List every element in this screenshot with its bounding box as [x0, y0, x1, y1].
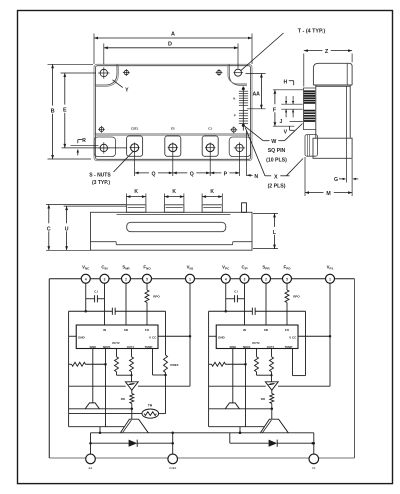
dim G — [346, 159, 348, 183]
wire B — [69, 413, 142, 415]
dim E — [61, 72, 97, 74]
svg-text:M: M — [326, 191, 330, 197]
wire E2 column — [90, 433, 92, 454]
side view case lid — [313, 63, 352, 85]
comparator triangle — [125, 382, 138, 390]
wire VCC — [298, 335, 330, 337]
collector drop — [271, 409, 273, 419]
wire TEMP — [152, 349, 154, 376]
wire CIN column — [104, 283, 106, 325]
svg-text:C.I: C.I — [94, 289, 98, 293]
diode — [230, 442, 269, 444]
wire CIN column — [244, 283, 246, 325]
wire out join — [257, 374, 272, 376]
svg-text:V CC: V CC — [149, 335, 157, 339]
capacitor C.I — [226, 298, 235, 300]
wire SINK column — [92, 349, 94, 404]
svg-text:CIN: CIN — [101, 265, 108, 271]
svg-text:C.I: C.I — [234, 289, 238, 293]
wire VNC column — [225, 283, 227, 311]
resistor OUT2 — [256, 349, 258, 357]
thermistor TH — [142, 409, 159, 418]
svg-text:P: P — [224, 171, 228, 177]
dim F — [274, 90, 276, 126]
front view baseplate lines — [91, 241, 117, 243]
comparator triangle — [265, 382, 278, 390]
dim U — [64, 205, 127, 207]
svg-text:3: 3 — [244, 278, 246, 282]
output transistor — [260, 419, 288, 433]
svg-text:C1: C1 — [312, 466, 316, 470]
svg-text:S - NUTS: S - NUTS — [89, 173, 111, 179]
svg-text:SENS: SENS — [243, 345, 251, 349]
terminal VP1 — [326, 274, 335, 283]
svg-text:D: D — [168, 41, 172, 47]
svg-text:AA: AA — [252, 92, 260, 98]
dim A — [93, 34, 95, 65]
svg-text:SQ PIN: SQ PIN — [268, 148, 286, 154]
terminal C1 — [309, 454, 319, 464]
svg-text:VP1: VP1 — [327, 265, 334, 271]
side view guide block — [305, 135, 318, 157]
schematic boundary box — [49, 278, 354, 280]
side view baseplate — [313, 138, 352, 158]
svg-text:V: V — [284, 130, 288, 136]
svg-text:C: C — [47, 226, 51, 232]
wire emitter rail — [91, 432, 314, 434]
svg-text:W: W — [271, 139, 277, 145]
mounting hole bottom-left — [100, 144, 107, 151]
corner flange curves — [95, 64, 117, 85]
svg-text:TEMP: TEMP — [285, 345, 293, 349]
resistor OUT1 — [131, 349, 133, 357]
svg-text:G: G — [334, 177, 338, 183]
svg-text:FO: FO — [285, 328, 290, 332]
terminal strip line — [95, 133, 250, 135]
svg-text:R: R — [82, 138, 86, 144]
svg-text:TH: TH — [148, 403, 153, 407]
svg-text:C1: C1 — [208, 127, 212, 131]
svg-text:VN1: VN1 — [187, 265, 194, 271]
driver IC — [76, 325, 158, 349]
svg-text:C2E1: C2E1 — [131, 127, 139, 131]
wire VCC — [158, 335, 190, 337]
svg-text:(2 PLS): (2 PLS) — [268, 184, 286, 190]
capacitor input — [209, 310, 253, 312]
resistor OUT2 — [116, 349, 118, 357]
svg-text:K: K — [134, 189, 138, 195]
dim K row — [125, 194, 127, 205]
wire SENS column — [105, 349, 107, 427]
collector drop — [131, 409, 133, 419]
svg-text:VNC: VNC — [82, 265, 90, 271]
dim Z — [303, 54, 305, 87]
pin field extension lines — [273, 89, 303, 91]
svg-text:A: A — [171, 32, 175, 38]
driver IC — [216, 325, 298, 349]
front view slot — [127, 222, 226, 231]
svg-text:B: B — [51, 109, 55, 115]
sink transistor — [225, 403, 239, 409]
svg-text:VPC: VPC — [222, 265, 230, 271]
terminal VPC — [221, 274, 230, 283]
sink transistor — [85, 403, 99, 409]
svg-text:OUT2: OUT2 — [252, 341, 260, 345]
side view connector block — [303, 88, 315, 130]
terminal E2 — [86, 454, 96, 464]
terminal CIP — [240, 274, 249, 283]
dim M — [304, 157, 306, 196]
svg-text:K: K — [210, 189, 214, 195]
wire out join — [117, 374, 132, 376]
capacitor input — [69, 310, 113, 312]
output transistor — [120, 419, 148, 433]
resistor RO — [271, 390, 273, 393]
svg-text:C2E1: C2E1 — [169, 466, 177, 470]
svg-text:U: U — [65, 226, 69, 232]
wire C2E1 column — [172, 433, 174, 454]
dim J arrows — [285, 96, 287, 104]
svg-text:RPO: RPO — [293, 295, 300, 299]
screw terminal E2 — [165, 136, 181, 156]
svg-text:1: 1 — [329, 278, 331, 282]
svg-text:OUT1: OUT1 — [267, 345, 275, 349]
svg-text:CIP: CIP — [241, 265, 247, 271]
svg-text:IN: IN — [243, 328, 246, 332]
svg-text:RPO: RPO — [153, 295, 160, 299]
wire mid to diode (right) — [229, 433, 231, 443]
capacitor C.I — [86, 298, 95, 300]
terminal FNO — [143, 274, 152, 283]
wire H1 — [209, 385, 266, 387]
svg-text:(10 PLS): (10 PLS) — [266, 158, 287, 164]
terminal SPR — [262, 274, 271, 283]
wire SNR column — [125, 283, 127, 325]
dim L — [253, 212, 278, 214]
svg-text:X: X — [274, 174, 278, 180]
svg-text:RREF: RREF — [170, 363, 178, 367]
svg-text:N: N — [233, 96, 235, 100]
svg-text:N: N — [254, 174, 258, 180]
wire GND column — [68, 311, 70, 426]
svg-text:T - (4 TYP.): T - (4 TYP.) — [298, 29, 326, 35]
svg-text:IN: IN — [103, 328, 106, 332]
svg-text:GND: GND — [78, 335, 86, 339]
wire TH right — [159, 413, 166, 415]
svg-text:FPO: FPO — [283, 265, 291, 271]
svg-text:FNO: FNO — [143, 265, 151, 271]
svg-text:E: E — [63, 108, 67, 114]
wire A — [69, 408, 132, 410]
wire VNC column — [85, 283, 87, 311]
dim C — [46, 204, 126, 206]
side view case body — [316, 85, 350, 138]
wire SNR column — [265, 283, 267, 325]
wire SENS column — [245, 349, 247, 427]
svg-text:(3 TYP.): (3 TYP.) — [92, 180, 110, 186]
svg-text:P: P — [234, 114, 236, 118]
diode — [91, 442, 129, 444]
mounting hole top-right (T) — [235, 69, 242, 76]
svg-text:3: 3 — [104, 278, 106, 282]
resistor sense — [69, 363, 72, 365]
mounting hole top-left — [100, 69, 107, 76]
base wire — [69, 426, 125, 428]
svg-text:E2: E2 — [171, 127, 175, 131]
signal pin connector (top view) — [242, 87, 244, 131]
svg-text:5: 5 — [286, 278, 288, 282]
svg-text:TEMP: TEMP — [145, 345, 153, 349]
dim B — [48, 63, 94, 65]
screw terminal C1 — [202, 136, 218, 156]
wire GND column — [208, 311, 210, 426]
wire SINK column — [232, 349, 234, 404]
terminal FPO — [283, 274, 292, 283]
side view pins — [304, 91, 315, 92]
svg-text:2: 2 — [125, 278, 127, 282]
svg-text:1: 1 — [189, 278, 191, 282]
svg-text:Q: Q — [190, 171, 194, 177]
resistor RREF — [165, 311, 167, 355]
wire VN1 column — [329, 283, 331, 386]
svg-text:K: K — [172, 189, 176, 195]
svg-text:SINK: SINK — [89, 345, 96, 349]
resistor RPO — [286, 283, 288, 290]
small case screws — [124, 70, 128, 74]
resistor sense — [209, 363, 212, 365]
front view case — [91, 212, 253, 250]
svg-text:H: H — [284, 80, 288, 86]
svg-text:4: 4 — [85, 278, 87, 282]
wire GND stub — [69, 335, 77, 337]
terminal SNR — [122, 274, 131, 283]
svg-text:2: 2 — [265, 278, 267, 282]
svg-text:Y: Y — [125, 87, 129, 93]
svg-text:OUT2: OUT2 — [112, 341, 120, 345]
wire H1 — [69, 385, 126, 387]
svg-text:Q: Q — [151, 171, 155, 177]
terminal C2E1 — [168, 454, 178, 464]
svg-text:OUT1: OUT1 — [127, 345, 135, 349]
svg-text:SENS: SENS — [103, 345, 111, 349]
front view terminal bumps — [126, 205, 145, 213]
svg-text:RO: RO — [121, 397, 126, 401]
screw terminal C2E1 — [127, 136, 143, 156]
dim D — [103, 44, 105, 65]
wire reference column — [305, 311, 307, 375]
mounting hole bottom-right — [236, 144, 243, 151]
wire TEMP — [292, 349, 294, 376]
dim AA — [246, 73, 266, 75]
svg-text:E2: E2 — [89, 466, 93, 470]
svg-text:SNR: SNR — [122, 265, 130, 271]
terminal VN1 — [186, 274, 195, 283]
resistor RO — [131, 390, 133, 393]
svg-text:FO: FO — [145, 328, 150, 332]
svg-text:SINK: SINK — [229, 345, 236, 349]
dim Q Q P N row — [134, 153, 136, 177]
resistor RPO — [146, 283, 148, 290]
svg-text:SPR: SPR — [262, 265, 270, 271]
svg-text:5: 5 — [146, 278, 148, 282]
terminal CIN — [100, 274, 109, 283]
svg-text:4: 4 — [225, 278, 227, 282]
terminal VNC — [81, 274, 90, 283]
front view signal pin — [242, 203, 247, 213]
wire C1 column — [313, 433, 315, 454]
wire A — [209, 408, 272, 410]
dim V — [289, 126, 291, 130]
svg-text:GND: GND — [218, 335, 226, 339]
module body top view — [94, 64, 252, 160]
wire VN1 column — [189, 283, 191, 386]
svg-text:J: J — [280, 119, 283, 125]
wire GND stub — [209, 335, 217, 337]
resistor OUT1 — [271, 349, 273, 357]
svg-text:V CC: V CC — [289, 335, 297, 339]
base wire — [209, 426, 265, 428]
svg-text:RO: RO — [261, 397, 266, 401]
